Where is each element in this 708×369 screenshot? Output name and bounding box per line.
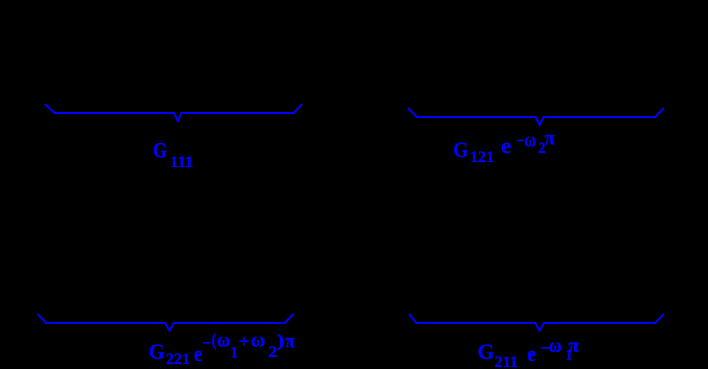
svg-text:+: + — [238, 332, 249, 353]
svg-text:1: 1 — [230, 344, 237, 361]
svg-text:−: − — [202, 334, 211, 353]
svg-text:π: π — [545, 128, 555, 150]
svg-text:G: G — [453, 137, 468, 162]
svg-text:e: e — [501, 133, 511, 158]
brace under omega-2 evolution (G_211 term) — [409, 314, 664, 331]
brace under omega-1 evolution (G_111 term) — [45, 104, 302, 121]
svg-text:211: 211 — [495, 354, 518, 369]
svg-text:G: G — [478, 339, 495, 364]
svg-text:111: 111 — [170, 154, 193, 171]
svg-text:ω: ω — [549, 335, 562, 357]
brace under omega-2 evolution (G_221 term) — [38, 314, 294, 331]
svg-text:e: e — [527, 341, 536, 366]
svg-text:G: G — [153, 138, 167, 163]
svg-text:G: G — [149, 339, 165, 364]
svg-text:ω: ω — [524, 129, 536, 151]
svg-text:): ) — [277, 330, 285, 351]
svg-text:π: π — [285, 331, 294, 353]
svg-text:ω: ω — [217, 330, 230, 352]
brace under omega-1 evolution (G_121 term) — [408, 108, 664, 125]
svg-text:(: ( — [212, 330, 217, 351]
svg-text:121: 121 — [470, 149, 494, 166]
svg-text:ω: ω — [251, 329, 266, 351]
svg-text:221: 221 — [166, 351, 190, 368]
svg-text:π: π — [568, 335, 578, 357]
